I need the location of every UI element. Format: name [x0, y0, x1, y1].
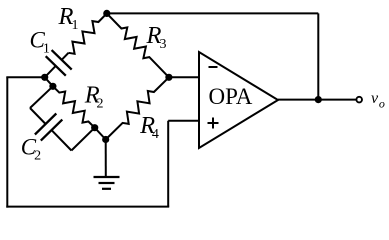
- op-amp U1 OPA: [199, 52, 278, 148]
- wire junction A1-A2: [45, 77, 53, 86]
- node T junction: [103, 10, 110, 17]
- wire noninverting input horizontal: [168, 120, 199, 122]
- node B junction: [165, 74, 172, 81]
- svg-text:vo: vo: [371, 90, 385, 111]
- wire left rail vertical: [6, 77, 8, 207]
- node A1 junction: [41, 74, 48, 81]
- node G1 junction: [91, 124, 98, 131]
- capacitor C2: [30, 108, 46, 124]
- node A2 junction: [49, 83, 56, 90]
- svg-text:R3: R3: [146, 22, 167, 52]
- wire bottom rail: [6, 206, 169, 208]
- svg-text:R1: R1: [58, 3, 79, 33]
- wire inverting input from node B: [169, 76, 199, 78]
- resistor R2: [53, 86, 95, 127]
- wire C2 branch lower segment: [71, 128, 94, 151]
- ground: [105, 140, 107, 178]
- wire right rail down to output node: [317, 13, 319, 99]
- svg-text:R4: R4: [139, 112, 159, 142]
- wire node A to left rail: [6, 76, 44, 78]
- wire noninverting feedback vertical: [167, 121, 169, 207]
- wire op-amp output to terminal: [278, 99, 357, 101]
- capacitor C1: [62, 53, 69, 60]
- resistor R4: [106, 77, 169, 139]
- resistor R3: [107, 13, 169, 77]
- output terminal: [356, 97, 362, 103]
- resistor R1: [69, 13, 107, 53]
- wire C2 branch upper segment: [30, 86, 53, 108]
- node output junction: [315, 96, 322, 103]
- node G2 junction: [102, 136, 109, 143]
- svg-text:C2: C2: [21, 135, 41, 164]
- svg-text:OPA: OPA: [209, 84, 253, 109]
- wire junction G1-G2: [95, 128, 106, 140]
- wire top rail from node T to right corner: [107, 12, 318, 14]
- svg-text:C1: C1: [30, 27, 50, 56]
- svg-text:R2: R2: [84, 82, 104, 112]
